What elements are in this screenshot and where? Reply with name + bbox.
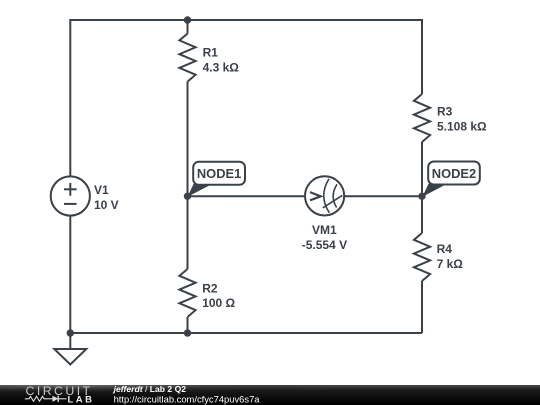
footer title text [113, 384, 261, 404]
wire middle horizontal from voltmeter to NODE2 [344, 195, 422, 197]
svg-text:LAB: LAB [68, 395, 95, 405]
svg-text:R2: R2 [202, 281, 218, 295]
svg-text:7 kΩ: 7 kΩ [437, 257, 464, 271]
node NODE2 flag [422, 162, 479, 197]
wire left rail from V1 to bottom rail [69, 216, 71, 333]
footer bar [0, 385, 540, 405]
ground [54, 333, 86, 365]
svg-text:R4: R4 [437, 242, 453, 256]
voltage source V1 [51, 176, 119, 215]
svg-text:V1: V1 [94, 183, 109, 197]
resistor R1 [179, 34, 239, 82]
resistor R2 [179, 269, 235, 317]
svg-text:R3: R3 [437, 105, 453, 119]
wire middle vertical from R2 to bottom rail [187, 317, 189, 333]
svg-text:-5.554 V: -5.554 V [302, 238, 347, 252]
footer CircuitLab logo [25, 384, 95, 405]
wire middle vertical from NODE1 junction to R2 [187, 196, 189, 269]
wire right rail from R4 to bottom rail [421, 281, 423, 333]
junction dot NODE2 [418, 193, 425, 200]
svg-text:NODE2: NODE2 [432, 166, 476, 181]
resistor R4 [414, 233, 463, 281]
wire middle vertical drop from top rail to R1 [187, 20, 189, 34]
svg-text:4.3 kΩ: 4.3 kΩ [203, 60, 240, 74]
wire bottom rail [70, 332, 422, 334]
junction dot NODE1 [184, 193, 191, 200]
wire top rail from left rail to right rail [70, 20, 422, 176]
voltmeter VM1 [302, 176, 347, 252]
svg-text:VM1: VM1 [312, 223, 337, 237]
svg-text:5.108 kΩ: 5.108 kΩ [437, 119, 487, 133]
svg-text:100 Ω: 100 Ω [202, 296, 235, 310]
junction dot R2 at bottom rail [184, 329, 191, 336]
svg-text:http://circuitlab.com/cfyc74pu: http://circuitlab.com/cfyc74puv6s7a [114, 393, 261, 404]
wire right rail from R3 to NODE2 junction [421, 142, 423, 233]
node NODE1 flag [188, 162, 245, 197]
junction dot ground at bottom rail [67, 329, 74, 336]
svg-text:NODE1: NODE1 [197, 166, 241, 181]
svg-text:R1: R1 [203, 46, 219, 60]
wire middle vertical from R1 to NODE1 junction [187, 82, 189, 197]
resistor R3 [414, 94, 487, 142]
svg-text:10 V: 10 V [94, 198, 119, 212]
junction dot at top rail and R1 [184, 16, 191, 23]
wire middle horizontal from NODE1 to voltmeter [188, 195, 306, 197]
